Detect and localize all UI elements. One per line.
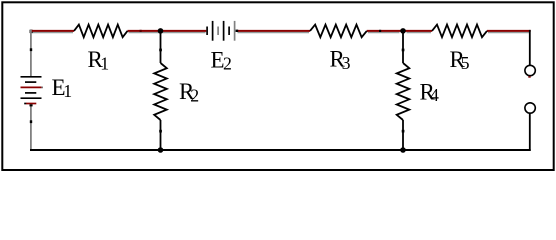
resistor R2 [154,63,167,120]
battery E2 [207,21,235,41]
terminal circle top [525,65,535,75]
terminal circle bottom [525,103,535,113]
wire endpoint dot E1 bottom pin [30,120,32,123]
battery E1 [21,77,44,107]
node A junction dot top [158,28,164,34]
node corner top-left junction blob [30,30,33,33]
wire right column upper (black) [529,30,531,66]
svg-text:5: 5 [461,53,470,73]
wire endpoint dot E1 top pin [30,48,32,51]
node B junction dot top [400,28,406,34]
svg-text:2: 2 [223,54,232,74]
border frame [2,2,553,170]
wire endpoint dot R4 bottom lead [402,130,405,133]
wire R4 bottom lead [402,120,404,149]
resistor R5 [432,25,487,38]
wire endpoint dot R1 right [140,30,142,32]
wire right column lower (black) [529,113,531,151]
svg-text:4: 4 [430,85,439,105]
wire endpoint dot R3 right [379,30,381,32]
resistor R1 [74,25,128,38]
wire bottom (black) [30,149,531,151]
resistor R3 [310,25,367,38]
wire R2 top lead [160,32,162,63]
svg-text:2: 2 [190,85,199,105]
wire R4 top lead [402,32,404,63]
wire endpoint dot R2 bottom lead [159,130,162,133]
wire endpoint red tick below top terminal [528,76,530,78]
wire R1 to node A (red) [128,30,207,32]
svg-text:3: 3 [342,53,351,73]
svg-text:1: 1 [63,81,72,101]
wire endpoint dot R2 top lead [159,49,162,52]
wire top-left red segment (corner to R1) [31,30,74,32]
node B junction dot bottom [400,147,406,153]
wire R5 to top-right corner (red) [487,30,531,32]
wire left column upper (gray) [30,30,32,76]
wire left column lower (gray) [30,105,32,151]
resistor R4 [397,63,410,120]
wire endpoint dot R4 top lead [402,49,405,52]
node A junction dot bottom [158,147,164,153]
wire E2 to R3 (red) [237,30,310,32]
svg-text:1: 1 [100,53,109,73]
wire R2 bottom lead [160,120,162,149]
wire R3 to node B (red) [367,30,432,32]
wire top gray underline remnants [32,32,529,34]
wire endpoint dot E2 right [236,30,239,32]
